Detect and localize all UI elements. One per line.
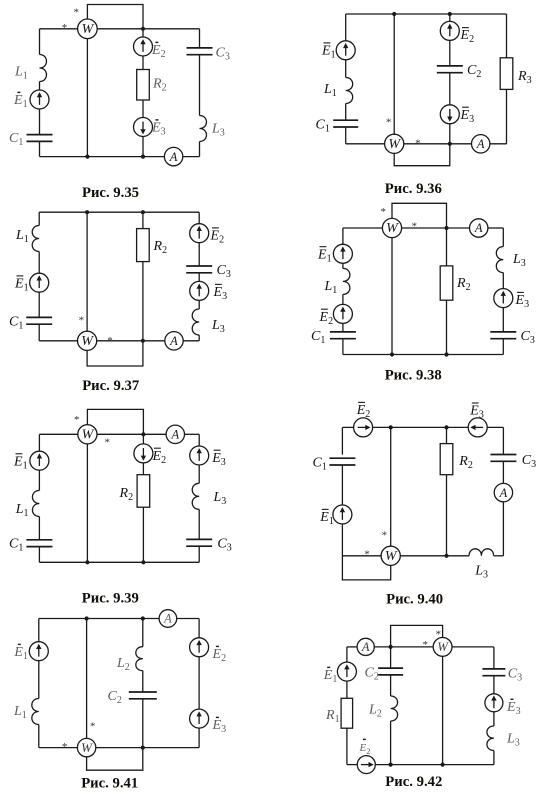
wire 9.35 xyxy=(142,136,144,156)
inductor L2 9.41 xyxy=(136,647,143,671)
resistor R2 9.40 xyxy=(440,444,453,475)
junction top-left node 9.37 xyxy=(85,210,89,214)
svg-text:A: A xyxy=(169,150,178,164)
wire wattmeter stem 9.42 xyxy=(442,656,444,764)
label E2 9.39 xyxy=(152,448,167,466)
EMF source E2 9.37 xyxy=(190,224,209,243)
wire 9.37 xyxy=(198,242,200,266)
wire 9.41 xyxy=(38,725,40,748)
wire top rail left segment 9.39 xyxy=(39,433,77,435)
EMF source E2 9.41 xyxy=(190,638,209,657)
label C3 9.40 xyxy=(522,453,536,470)
EMF source E3 9.35 xyxy=(134,118,153,137)
label L3 9.42 xyxy=(506,732,520,749)
junction wattmeter-bottom 9.42 xyxy=(441,763,445,767)
EMF source E1 9.36 xyxy=(336,41,355,60)
EMF source E3 9.38 xyxy=(494,289,513,308)
wire 9.41 xyxy=(38,660,40,698)
inductor L3 9.38 xyxy=(496,247,503,273)
wire 9.42 xyxy=(390,675,392,696)
wattmeter W 9.39 xyxy=(78,425,97,444)
ammeter A 9.39 xyxy=(166,425,184,443)
label E2 9.38 xyxy=(319,309,334,327)
wire 9.38 xyxy=(342,323,344,332)
wire bottom rail left segment 9.37 xyxy=(39,340,77,342)
EMF source E3 9.36 xyxy=(440,105,459,124)
junction bottom node 9.40 xyxy=(444,554,448,558)
label E1 9.38 xyxy=(317,247,332,265)
wire 9.39 xyxy=(38,517,40,540)
junction top node 9.38 xyxy=(444,226,448,230)
svg-text:*: * xyxy=(381,206,387,218)
ammeter A 9.38 xyxy=(470,219,488,237)
wire wattmeter voltage-coil loop 9.37 xyxy=(87,341,143,366)
svg-text:A: A xyxy=(499,486,508,500)
wire 9.39 xyxy=(198,546,200,562)
wire middle branch upper 9.38 xyxy=(446,228,448,266)
wire 9.35 xyxy=(142,56,144,70)
ammeter A 9.35 xyxy=(164,147,182,165)
wire bottom rail 9.38 xyxy=(343,354,503,356)
svg-text:*: * xyxy=(423,639,429,651)
label E2 9.40 xyxy=(356,402,371,420)
wire wattmeter stem 9.35 xyxy=(86,39,88,157)
label C1 9.40 xyxy=(313,456,327,473)
svg-text:Рис. 9.40: Рис. 9.40 xyxy=(386,592,443,608)
label L2 9.41 xyxy=(116,656,130,673)
label E3 9.38 xyxy=(515,292,530,310)
wire 9.38 xyxy=(502,307,504,332)
wire 9.35 xyxy=(199,142,201,157)
inductor L1 9.39 xyxy=(32,491,39,517)
label E2 9.37 xyxy=(210,228,225,246)
EMF source E3 9.39 xyxy=(190,446,209,465)
label C1 9.38 xyxy=(311,329,325,346)
wire 9.38 xyxy=(342,263,344,268)
svg-text:Рис. 9.36: Рис. 9.36 xyxy=(385,181,442,197)
wire 9.40 xyxy=(502,461,504,483)
wire wattmeter voltage-coil loop 9.38 xyxy=(392,203,447,228)
wire left branch upper 9.39 xyxy=(38,434,40,451)
wire 9.37 xyxy=(38,292,40,318)
wire wattmeter voltage-coil loop 9.40 xyxy=(342,556,390,580)
label E3 9.37 xyxy=(213,284,228,302)
capacitor C3 9.37 xyxy=(186,266,212,273)
svg-text:Рис. 9.37: Рис. 9.37 xyxy=(82,378,139,394)
EMF source E2 9.40 xyxy=(354,418,373,437)
ammeter A 9.42 xyxy=(357,638,374,655)
wire top rail middle segment 9.38 xyxy=(402,227,470,229)
junction wattmeter-bottom 9.38 xyxy=(390,352,394,356)
label L1 9.37 xyxy=(15,228,29,245)
wire top rail right segment 9.40 xyxy=(487,426,503,428)
label C1 9.37 xyxy=(9,315,23,332)
wattmeter W 9.35 xyxy=(78,19,98,39)
label R2 9.35 xyxy=(152,77,167,94)
label E1 9.41 xyxy=(13,644,28,662)
wire top rail left segment 9.35 xyxy=(40,28,78,30)
label E1 9.40 xyxy=(319,509,334,527)
label E3 9.36 xyxy=(460,107,475,125)
wire top rail middle segment 9.42 xyxy=(374,646,433,648)
wire right branch upper 9.38 xyxy=(502,228,504,247)
capacitor C3 9.35 xyxy=(187,48,213,55)
EMF source E2 9.36 xyxy=(440,21,459,40)
wattmeter W 9.40 xyxy=(381,546,400,565)
wire top rail segment 9.40 xyxy=(342,426,354,428)
inductor L3 9.40 xyxy=(469,549,494,556)
wire bottom rail right segment 9.37 xyxy=(183,340,199,342)
label C1 9.35 xyxy=(9,131,23,148)
capacitor C3 9.38 xyxy=(490,332,516,339)
wire top rail right segment 9.42 xyxy=(452,646,494,648)
capacitor C1 9.38 xyxy=(330,332,356,339)
wire 9.40 xyxy=(502,502,504,556)
wire 9.36 xyxy=(345,127,347,144)
wire middle branch 9.36 xyxy=(449,14,451,22)
junction wattmeter-bottom 9.39 xyxy=(85,560,89,564)
wire 9.39 xyxy=(38,470,40,491)
svg-text:*: * xyxy=(62,22,68,34)
EMF source E1 9.35 xyxy=(30,90,49,109)
wire 9.37 xyxy=(198,273,200,282)
svg-text:W: W xyxy=(385,549,398,564)
wire 9.36 xyxy=(449,40,451,66)
wire 9.35 xyxy=(142,100,144,118)
inductor L1 9.35 xyxy=(40,55,47,82)
junction top wattmeter node 9.40 xyxy=(389,425,393,429)
capacitor C1 9.37 xyxy=(26,317,52,324)
wire 9.41 xyxy=(142,671,144,692)
wattmeter W 9.42 xyxy=(433,638,452,657)
wire top rail right segment 9.39 xyxy=(184,433,199,435)
wire left branch upper 9.37 xyxy=(38,212,40,225)
ammeter A 9.41 xyxy=(159,610,177,628)
inductor L2 9.42 xyxy=(391,696,398,721)
wire 9.37 xyxy=(38,324,40,341)
label E3 9.39 xyxy=(211,450,226,468)
wire right branch upper 9.42 xyxy=(493,647,495,669)
EMF source E3 9.41 xyxy=(190,709,209,728)
label L1 9.41 xyxy=(13,704,27,721)
svg-text:*: * xyxy=(62,741,68,753)
capacitor C2 9.42 xyxy=(378,668,403,675)
junction top-right node 9.36 xyxy=(448,12,452,16)
label E3 9.42 xyxy=(506,699,521,717)
inductor L3 9.39 xyxy=(192,483,199,509)
capacitor C3 9.42 xyxy=(482,669,505,676)
junction top-left node 9.36 xyxy=(392,12,396,16)
label L3 9.38 xyxy=(512,252,526,269)
svg-text:A: A xyxy=(361,640,370,654)
EMF source E3 9.37 xyxy=(190,281,209,300)
wire wattmeter stem 9.40 xyxy=(390,427,392,546)
wire top rail left segment 9.41 xyxy=(39,618,159,620)
capacitor C2 9.41 xyxy=(129,692,157,699)
svg-text:W: W xyxy=(437,640,449,654)
wire left branch lower 9.35 xyxy=(39,141,41,156)
wire 9.42 xyxy=(493,712,495,726)
capacitor C3 9.40 xyxy=(490,455,516,462)
EMF source E3 9.40 xyxy=(468,418,487,437)
label C3 9.39 xyxy=(217,537,231,554)
label C2 9.36 xyxy=(467,63,481,80)
wire top rail left segment 9.42 xyxy=(347,646,357,648)
label R2 9.39 xyxy=(119,486,134,503)
svg-text:*: * xyxy=(411,220,417,232)
wire bottom rail middle segment 9.36 xyxy=(404,143,472,145)
label C1 9.39 xyxy=(9,536,23,553)
wire 9.36 xyxy=(449,124,451,144)
label E2 9.42 xyxy=(359,739,371,756)
EMF source E1 9.38 xyxy=(333,244,352,263)
wire top rail middle segment 9.40 xyxy=(372,426,468,428)
wire 9.39 xyxy=(38,547,40,563)
wire bottom rail left segment 9.35 xyxy=(40,156,165,158)
label C1 9.36 xyxy=(316,117,330,134)
svg-text:*: * xyxy=(382,529,388,541)
label R1 9.42 xyxy=(325,708,340,725)
label L3 9.40 xyxy=(474,563,488,580)
wire middle branch upper 9.37 xyxy=(142,212,144,228)
svg-text:*: * xyxy=(435,628,441,640)
label E1 9.35 xyxy=(13,92,28,110)
wire 9.36 xyxy=(449,73,451,105)
wire middle branch upper 9.40 xyxy=(446,427,448,443)
wire left branch upper 9.42 xyxy=(346,647,348,663)
resistor R2 9.37 xyxy=(137,229,150,262)
wire right branch upper 9.40 xyxy=(502,427,504,454)
wire 9.35 xyxy=(199,55,201,116)
wire wattmeter stem 9.36 xyxy=(393,14,395,135)
label E1 9.42 xyxy=(323,667,338,685)
wire 9.39 xyxy=(198,465,200,484)
inductor L1 9.38 xyxy=(343,268,350,294)
ammeter A 9.37 xyxy=(165,332,183,350)
wire right branch lower 9.36 xyxy=(506,89,508,143)
wire right branch 9.39 xyxy=(198,434,200,446)
resistor R2 9.38 xyxy=(440,266,453,300)
wire 9.41 xyxy=(198,657,200,710)
wire right branch 9.41 xyxy=(198,619,200,639)
svg-text:A: A xyxy=(170,428,179,442)
wire 9.38 xyxy=(502,273,504,289)
svg-text:*: * xyxy=(74,414,80,426)
wire bottom rail left segment 9.41 xyxy=(39,747,78,749)
junction bottom node 9.39 xyxy=(141,560,145,564)
EMF source E1 9.41 xyxy=(29,642,48,661)
EMF source E1 9.40 xyxy=(333,505,352,524)
label E1 9.39 xyxy=(13,454,28,472)
label C2 9.42 xyxy=(365,666,379,683)
junction bottom node 9.38 xyxy=(444,352,448,356)
inductor L1 9.37 xyxy=(32,226,39,252)
capacitor C1 9.35 xyxy=(27,135,53,142)
label C2 9.41 xyxy=(108,689,122,706)
wire 9.42 xyxy=(493,676,495,694)
svg-text:Рис. 9.38: Рис. 9.38 xyxy=(385,368,442,384)
resistor R3 9.36 xyxy=(500,58,513,90)
label E2 9.35 xyxy=(151,42,166,60)
wire 9.41 xyxy=(142,699,144,748)
wire 9.36 xyxy=(345,60,347,78)
wire 9.42 xyxy=(346,681,348,699)
wire top rail 9.36 xyxy=(346,13,507,15)
wire middle branch lower 9.38 xyxy=(446,300,448,354)
wire 9.38 xyxy=(342,339,344,355)
wire bottom rail left segment 9.42 xyxy=(347,764,357,766)
wire 9.40 xyxy=(341,465,343,505)
label C3 9.37 xyxy=(217,263,231,280)
label E2 9.41 xyxy=(212,646,227,664)
wire bottom rail middle segment 9.37 xyxy=(97,340,165,342)
junction bottom node 9.36 xyxy=(448,142,452,146)
resistor R1 9.42 xyxy=(341,698,353,728)
wire left branch upper 9.36 xyxy=(345,14,347,41)
label E1 9.36 xyxy=(321,43,336,61)
svg-text:A: A xyxy=(163,612,172,626)
wire 9.41 xyxy=(198,728,200,748)
wire middle branch upper 9.42 xyxy=(390,647,392,668)
wire wattmeter stem 9.38 xyxy=(391,238,393,355)
wattmeter W 9.37 xyxy=(78,331,97,350)
svg-text:Рис. 9.39: Рис. 9.39 xyxy=(82,590,139,606)
wire bottom rail right segment 9.41 xyxy=(95,747,199,749)
svg-text:Рис. 9.41: Рис. 9.41 xyxy=(81,775,138,791)
wire middle branch upper 9.41 xyxy=(142,619,144,647)
junction node bottom 9.35 xyxy=(141,155,145,159)
label E1 9.37 xyxy=(14,276,29,294)
wire 9.40 xyxy=(341,524,343,556)
EMF source E2 9.42 xyxy=(357,756,375,774)
junction top-middle node 9.37 xyxy=(141,210,145,214)
wire top rail middle segment 9.39 xyxy=(97,433,166,435)
wire top rail right segment 9.41 xyxy=(177,618,199,620)
wire top rail right segment 9.38 xyxy=(488,227,504,229)
wire 9.35 xyxy=(39,109,41,135)
wire 9.37 xyxy=(38,252,40,274)
label L1 9.36 xyxy=(323,82,337,99)
wire wattmeter voltage-coil loop 9.41 xyxy=(87,748,143,771)
junction top middle node 9.40 xyxy=(444,425,448,429)
wire bottom rail middle segment 9.40 xyxy=(400,555,469,557)
wire wattmeter voltage-coil loop 9.36 xyxy=(394,144,450,166)
svg-text:*: * xyxy=(79,314,85,326)
wire 9.42 xyxy=(390,721,392,765)
wire bottom rail left segment 9.36 xyxy=(346,143,385,145)
label L1 9.38 xyxy=(324,279,338,296)
wire bottom rail right segment 9.42 xyxy=(375,764,494,766)
resistor R2 9.35 xyxy=(137,70,150,101)
junction bottom middle node 9.42 xyxy=(389,763,393,767)
label C3 9.38 xyxy=(521,329,535,346)
label C3 9.42 xyxy=(508,666,522,683)
svg-text:W: W xyxy=(386,221,399,236)
inductor L1 9.41 xyxy=(32,699,39,725)
resistor R2 9.39 xyxy=(137,475,150,508)
svg-text:*: * xyxy=(105,436,111,448)
label L3 9.37 xyxy=(211,318,225,335)
wire wattmeter voltage-coil loop 9.42 xyxy=(391,625,443,647)
wire bottom rail left segment 9.40 xyxy=(342,555,381,557)
EMF source E3 9.42 xyxy=(485,694,503,712)
junction top node 9.39 xyxy=(141,432,145,436)
svg-text:W: W xyxy=(81,740,93,755)
EMF source E2 9.38 xyxy=(333,304,352,323)
label E3 9.35 xyxy=(151,120,166,138)
wire middle branch lower 9.37 xyxy=(142,262,144,341)
label L3 9.35 xyxy=(211,122,225,139)
wire wattmeter voltage-coil loop 9.39 xyxy=(87,409,143,434)
svg-text:*: * xyxy=(90,720,96,732)
wire middle branch lower 9.40 xyxy=(446,475,448,556)
junction top node 9.42 xyxy=(389,645,393,649)
svg-text:*: * xyxy=(73,7,79,19)
label L1 9.39 xyxy=(15,502,29,519)
label E3 9.41 xyxy=(212,717,227,735)
wire 9.42 xyxy=(346,728,348,764)
wire 9.39 xyxy=(142,463,144,475)
wattmeter W 9.36 xyxy=(385,134,404,153)
EMF source E2 9.39 xyxy=(134,444,153,463)
junction top wattmeter node 9.41 xyxy=(85,616,89,620)
junction top middle node 9.41 xyxy=(141,616,145,620)
svg-text:*: * xyxy=(386,117,392,129)
ammeter A 9.40 xyxy=(494,483,512,501)
wire left branch upper 9.38 xyxy=(342,228,344,245)
svg-text:Рис. 9.42: Рис. 9.42 xyxy=(385,774,442,790)
junction bottom node 9.41 xyxy=(141,746,145,750)
wire wattmeter stem 9.39 xyxy=(86,444,88,562)
label E2 9.36 xyxy=(460,28,475,46)
wire 9.37 xyxy=(198,300,200,309)
wire bottom rail right segment 9.35 xyxy=(183,156,200,158)
wire middle branch 9.39 xyxy=(142,434,144,444)
svg-text:W: W xyxy=(82,22,95,37)
label L1 9.35 xyxy=(14,65,28,82)
capacitor C1 9.40 xyxy=(329,458,355,465)
wire wattmeter stem 9.41 xyxy=(86,619,88,740)
label R3 9.36 xyxy=(517,69,532,86)
wire left branch upper 9.41 xyxy=(38,619,40,643)
wire middle branch 9.35 xyxy=(142,29,144,38)
ammeter A 9.36 xyxy=(472,135,490,153)
inductor L3 9.35 xyxy=(200,116,207,142)
wire 9.36 xyxy=(345,104,347,121)
capacitor C3 9.39 xyxy=(186,539,212,546)
wire top rail 9.37 xyxy=(39,211,199,213)
wire top rail right segment 9.35 xyxy=(97,28,199,30)
capacitor C1 9.39 xyxy=(26,540,52,547)
label R2 9.37 xyxy=(153,239,168,256)
wire bottom rail 9.39 xyxy=(39,561,199,563)
wire 9.35 xyxy=(39,82,41,91)
inductor L3 9.37 xyxy=(192,309,199,335)
label R2 9.38 xyxy=(456,276,471,293)
svg-text:W: W xyxy=(82,428,95,443)
svg-text:W: W xyxy=(388,137,401,152)
label E3 9.40 xyxy=(469,403,484,421)
wire left branch upper 9.40 xyxy=(341,427,343,454)
svg-text:Рис. 9.35: Рис. 9.35 xyxy=(82,185,139,201)
svg-text:W: W xyxy=(81,334,94,349)
junction wattmeter-bottom 9.35 xyxy=(85,155,89,159)
wire wattmeter voltage-coil loop 9.35 xyxy=(87,5,143,29)
wire bottom rail right segment 9.36 xyxy=(490,143,507,145)
capacitor C2 9.36 xyxy=(437,66,463,73)
wattmeter W 9.41 xyxy=(77,738,95,756)
junction node top 9.35 xyxy=(141,27,145,31)
